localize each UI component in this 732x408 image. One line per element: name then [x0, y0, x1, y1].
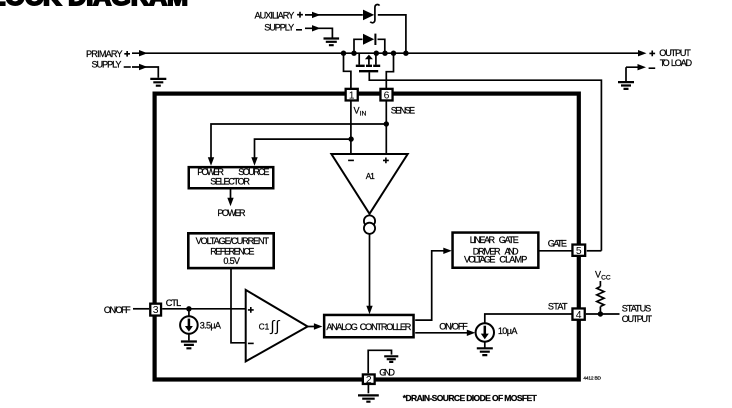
svg-text:10µA: 10µA [498, 326, 518, 336]
svg-text:3.5µA: 3.5µA [200, 321, 222, 331]
svg-text:LOCK DIAGRAM: LOCK DIAGRAM [0, 0, 188, 11]
svg-text:0.5V: 0.5V [223, 256, 241, 266]
svg-text:4: 4 [576, 310, 582, 321]
svg-text:3: 3 [153, 305, 159, 316]
svg-text:SELECTOR: SELECTOR [210, 177, 250, 187]
svg-text:C1: C1 [259, 322, 270, 332]
svg-text:LINEAR: LINEAR [470, 235, 496, 245]
svg-text:LOAD: LOAD [671, 58, 693, 68]
svg-text:GND: GND [379, 368, 395, 378]
svg-text:VOLTAGE/CURRENT: VOLTAGE/CURRENT [196, 236, 270, 246]
svg-text:A1: A1 [366, 172, 375, 181]
svg-text:PRIMARY: PRIMARY [86, 49, 123, 59]
svg-text:OUTPUT: OUTPUT [659, 48, 691, 58]
svg-text:REFERENCE: REFERENCE [210, 246, 254, 256]
svg-text:∫: ∫ [274, 318, 281, 335]
svg-text:SENSE: SENSE [391, 106, 415, 116]
svg-text:CTL: CTL [166, 298, 182, 308]
svg-text:CONTROLLER: CONTROLLER [360, 322, 412, 332]
svg-text:VCC: VCC [595, 270, 611, 282]
svg-text:5: 5 [576, 246, 582, 257]
svg-text:VOLTAGE: VOLTAGE [464, 255, 496, 265]
svg-text:POWER: POWER [197, 167, 224, 177]
svg-text:SOURCE: SOURCE [238, 167, 269, 177]
svg-text:STAT: STAT [548, 302, 568, 312]
svg-text:VIN: VIN [354, 106, 367, 118]
svg-text:6: 6 [384, 90, 390, 101]
svg-text:4412 BD: 4412 BD [583, 376, 601, 382]
svg-text:TO: TO [660, 58, 670, 68]
svg-text:STATUS: STATUS [622, 304, 651, 314]
svg-text:ANALOG: ANALOG [326, 322, 357, 332]
svg-text:1: 1 [349, 90, 355, 101]
svg-text:ON/OFF: ON/OFF [104, 305, 131, 315]
svg-text:SUPPLY: SUPPLY [92, 60, 122, 70]
svg-text:GATE: GATE [499, 235, 519, 245]
svg-text:*DRAIN-SOURCE DIODE OF MOSFET: *DRAIN-SOURCE DIODE OF MOSFET [403, 393, 538, 403]
svg-text:POWER: POWER [217, 208, 246, 218]
svg-text:2: 2 [366, 375, 372, 386]
svg-text:CLAMP: CLAMP [499, 255, 527, 265]
svg-text:ON/OFF: ON/OFF [439, 321, 468, 331]
svg-text:OUTPUT: OUTPUT [622, 314, 653, 324]
svg-text:SUPPLY: SUPPLY [264, 22, 294, 32]
svg-text:AUXILIARY: AUXILIARY [255, 10, 295, 20]
svg-text:GATE: GATE [548, 239, 567, 249]
